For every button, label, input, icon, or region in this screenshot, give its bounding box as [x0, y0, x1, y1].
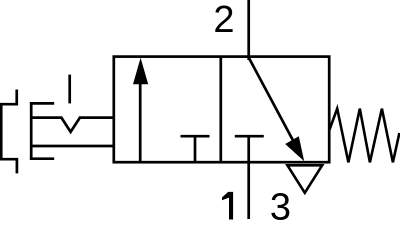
svg-text:2: 2	[213, 0, 234, 41]
svg-text:3: 3	[270, 186, 291, 228]
